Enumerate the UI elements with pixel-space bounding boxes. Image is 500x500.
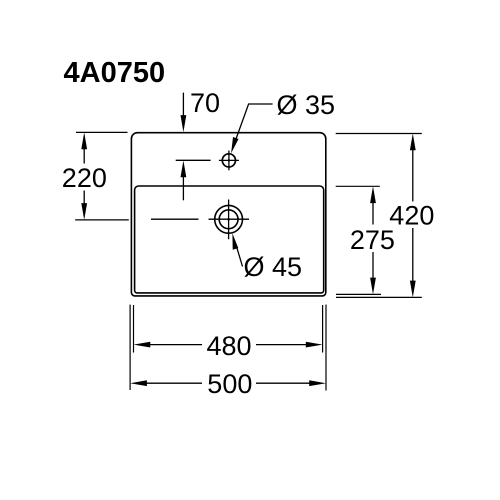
dimension 220 label [62, 163, 107, 193]
inner basin outline [135, 186, 324, 293]
diameter 45 leader line [232, 233, 242, 266]
dimension 420 label [389, 201, 434, 231]
svg-text:275: 275 [350, 225, 395, 255]
dimension 420 bottom extension line [336, 296, 422, 298]
dimension 275 label [350, 225, 395, 255]
svg-text:70: 70 [190, 88, 220, 118]
dimension 220 line with arrows [81, 132, 87, 220]
dimension 500 line with arrows [130, 380, 326, 386]
dimension 500 label [207, 369, 252, 399]
dimension 70 label [190, 88, 220, 118]
dimension 480 label [207, 331, 252, 361]
dimension 480 line with arrows [134, 342, 323, 348]
dimension 500 right extension line [325, 305, 327, 391]
diameter 35 leader line [231, 104, 273, 153]
svg-text:500: 500 [207, 369, 252, 399]
dimension 70 lower arrow [181, 161, 187, 201]
dimension 420 top extension line [336, 133, 422, 135]
faucet level tick line [176, 159, 211, 161]
dimension 220 bottom extension line [75, 219, 129, 221]
dimension 480 left extension line [133, 305, 135, 353]
svg-text:220: 220 [62, 163, 107, 193]
svg-text:420: 420 [389, 201, 434, 231]
drain centerline segment [151, 218, 199, 220]
dimension 420 line with arrows [410, 134, 416, 298]
dimension 220 top extension line [76, 131, 128, 133]
svg-text:480: 480 [207, 331, 252, 361]
dimension 480 right extension line [322, 305, 324, 353]
diameter 45 label [244, 252, 303, 282]
dimension 70 upper arrow [181, 93, 187, 133]
svg-text:Ø 45: Ø 45 [244, 252, 303, 282]
dimension 500 left extension line [129, 305, 131, 390]
svg-text:4A0750: 4A0750 [64, 57, 166, 89]
outer sink outline [131, 133, 325, 296]
faucet hole circle [219, 151, 239, 171]
dimension 275 bottom extension line [336, 293, 381, 295]
model label 4A0750 [64, 57, 166, 89]
diameter 35 label [277, 90, 336, 120]
drain hole circles [209, 200, 250, 240]
svg-text:Ø 35: Ø 35 [277, 90, 336, 120]
dimension 275 line with arrows [370, 186, 376, 294]
dimension 275 top extension line [336, 185, 380, 187]
